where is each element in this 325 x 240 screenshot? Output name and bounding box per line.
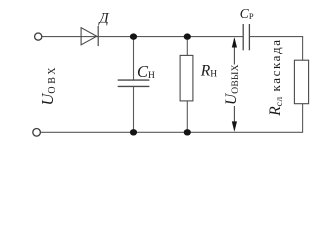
diode Д (cathode bar) xyxy=(97,26,99,46)
input terminal (top) xyxy=(35,33,42,40)
wire: Rн bottom to bottom rail xyxy=(186,101,188,132)
resistor Rсл (next stage input resistance) xyxy=(294,60,308,103)
capacitor Cр (left plate) xyxy=(242,24,244,50)
svg-text:CР: CР xyxy=(240,6,254,21)
Uо.вых dimension arrow (upper segment with arrowhead) xyxy=(232,37,237,64)
svg-text:RН: RН xyxy=(200,62,217,79)
svg-text:UОВЫХ: UОВЫХ xyxy=(223,64,241,105)
Uо.вых dimension arrow (lower segment with arrowhead) xyxy=(232,106,237,132)
wire: top rail (input terminal to Cр left plate) xyxy=(42,36,243,38)
resistor Rн xyxy=(180,55,193,101)
junction: diode cathode / Cн top xyxy=(130,33,137,39)
capacitor Cн (top plate) xyxy=(118,79,150,81)
capacitor Cр (right plate) xyxy=(248,24,250,50)
junction: Rн bottom / bottom rail xyxy=(184,129,191,135)
svg-text:CН: CН xyxy=(137,62,155,81)
wire: top rail (Cр right plate to top-right corner) xyxy=(249,36,303,38)
input terminal (bottom) xyxy=(33,129,41,137)
svg-text:Rсл каскада: Rсл каскада xyxy=(267,38,285,116)
wire: Cн bottom plate to bottom rail xyxy=(133,86,135,132)
diode Д (anode triangle) xyxy=(81,28,97,45)
wire: Cн branch, top rail to Cн top plate xyxy=(133,37,135,81)
junction: top rail / Rн top xyxy=(184,33,191,39)
junction: Cн bottom / bottom rail xyxy=(130,129,137,135)
wire: Rн branch, top rail to Rн top xyxy=(186,37,188,56)
svg-text:Д: Д xyxy=(97,10,109,26)
svg-text:UОВХ: UОВХ xyxy=(38,65,58,106)
wire: right branch, corner down to Rсл top xyxy=(302,36,304,60)
capacitor Cн (bottom plate) xyxy=(118,85,150,87)
wire: bottom rail xyxy=(40,131,303,133)
wire: Rсл bottom to bottom rail xyxy=(302,104,304,133)
